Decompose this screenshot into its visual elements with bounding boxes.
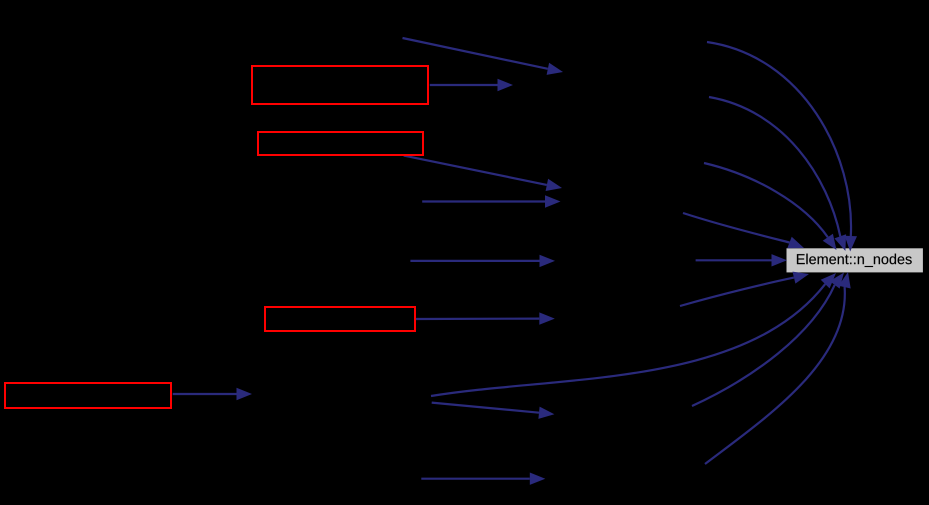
edge m8 [432,403,555,419]
edge m1 [403,38,564,75]
edge b3 [692,273,844,407]
edge m7 [173,388,252,400]
edge t2 [709,97,846,251]
edge m5 [410,255,555,267]
node red box D [5,383,171,408]
edge b2 [431,273,836,396]
edge m4 [422,195,560,207]
edge m3 [404,156,562,191]
edge m6 [416,312,555,324]
node Element::n_nodes [787,248,923,272]
edge l1 [696,254,787,266]
node red box C [265,307,415,331]
edge b4 [705,272,851,464]
edge m2 [430,79,513,91]
edge t3 [704,163,837,250]
node red box A [252,66,428,104]
edge b1 [680,272,809,306]
edge t1 [707,42,857,252]
edge t4 [683,213,804,248]
edge m9 [421,473,545,485]
node red box B [258,132,423,155]
